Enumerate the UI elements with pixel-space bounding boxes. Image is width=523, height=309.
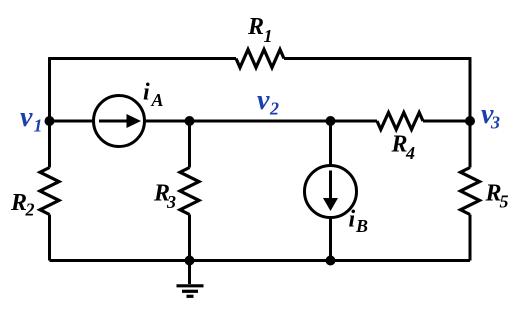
node v1	[45, 116, 55, 126]
svg-text:v: v	[20, 102, 33, 133]
wire top right segment	[284, 57, 470, 60]
svg-text:R: R	[391, 132, 408, 158]
ground	[177, 261, 204, 297]
wire R3 to bottom	[188, 215, 191, 261]
wire top left segment	[50, 57, 237, 60]
resistor R1	[236, 50, 284, 68]
resistor R2	[40, 168, 59, 215]
wire left rail upper	[48, 57, 51, 121]
wire v3 to R5	[469, 121, 472, 168]
wire right rail upper	[469, 57, 472, 121]
svg-text:R: R	[247, 14, 264, 40]
junction node v2	[326, 116, 336, 126]
svg-text:i: i	[349, 207, 356, 233]
junction node ground	[185, 256, 195, 266]
junction node iB bottom	[326, 256, 336, 266]
svg-text:v: v	[257, 85, 270, 116]
resistor R3	[180, 168, 199, 215]
current source iA	[94, 96, 145, 147]
resistor R5	[461, 168, 480, 215]
wire R2 to bottom	[48, 215, 51, 261]
svg-text:i: i	[143, 80, 150, 106]
svg-text:3: 3	[490, 113, 500, 133]
wire node to v2 node	[190, 120, 331, 123]
svg-text:2: 2	[25, 200, 35, 220]
svg-text:1: 1	[264, 26, 273, 46]
wire iB to bottom	[329, 218, 332, 261]
wire iA to node	[145, 120, 190, 123]
wire R4 to v3	[423, 120, 470, 123]
svg-text:A: A	[151, 90, 164, 110]
svg-text:2: 2	[269, 99, 279, 119]
wire bottom rail	[50, 259, 471, 262]
resistor R4	[377, 113, 423, 130]
current source iB	[305, 166, 357, 218]
wire node to R3	[188, 121, 191, 168]
wire v2 to iB	[329, 121, 332, 166]
svg-text:5: 5	[500, 192, 509, 212]
wire v1 to R2	[48, 121, 51, 168]
svg-text:R: R	[10, 190, 27, 216]
junction node above R3	[185, 116, 195, 126]
node v3	[465, 116, 475, 126]
wire v2 to R4	[331, 120, 378, 123]
svg-text:4: 4	[405, 143, 415, 163]
svg-text:B: B	[355, 216, 368, 236]
svg-text:3: 3	[166, 192, 176, 212]
wire R5 to bottom	[469, 215, 472, 261]
svg-text:1: 1	[34, 116, 43, 136]
wire v1 to iA	[50, 120, 95, 123]
